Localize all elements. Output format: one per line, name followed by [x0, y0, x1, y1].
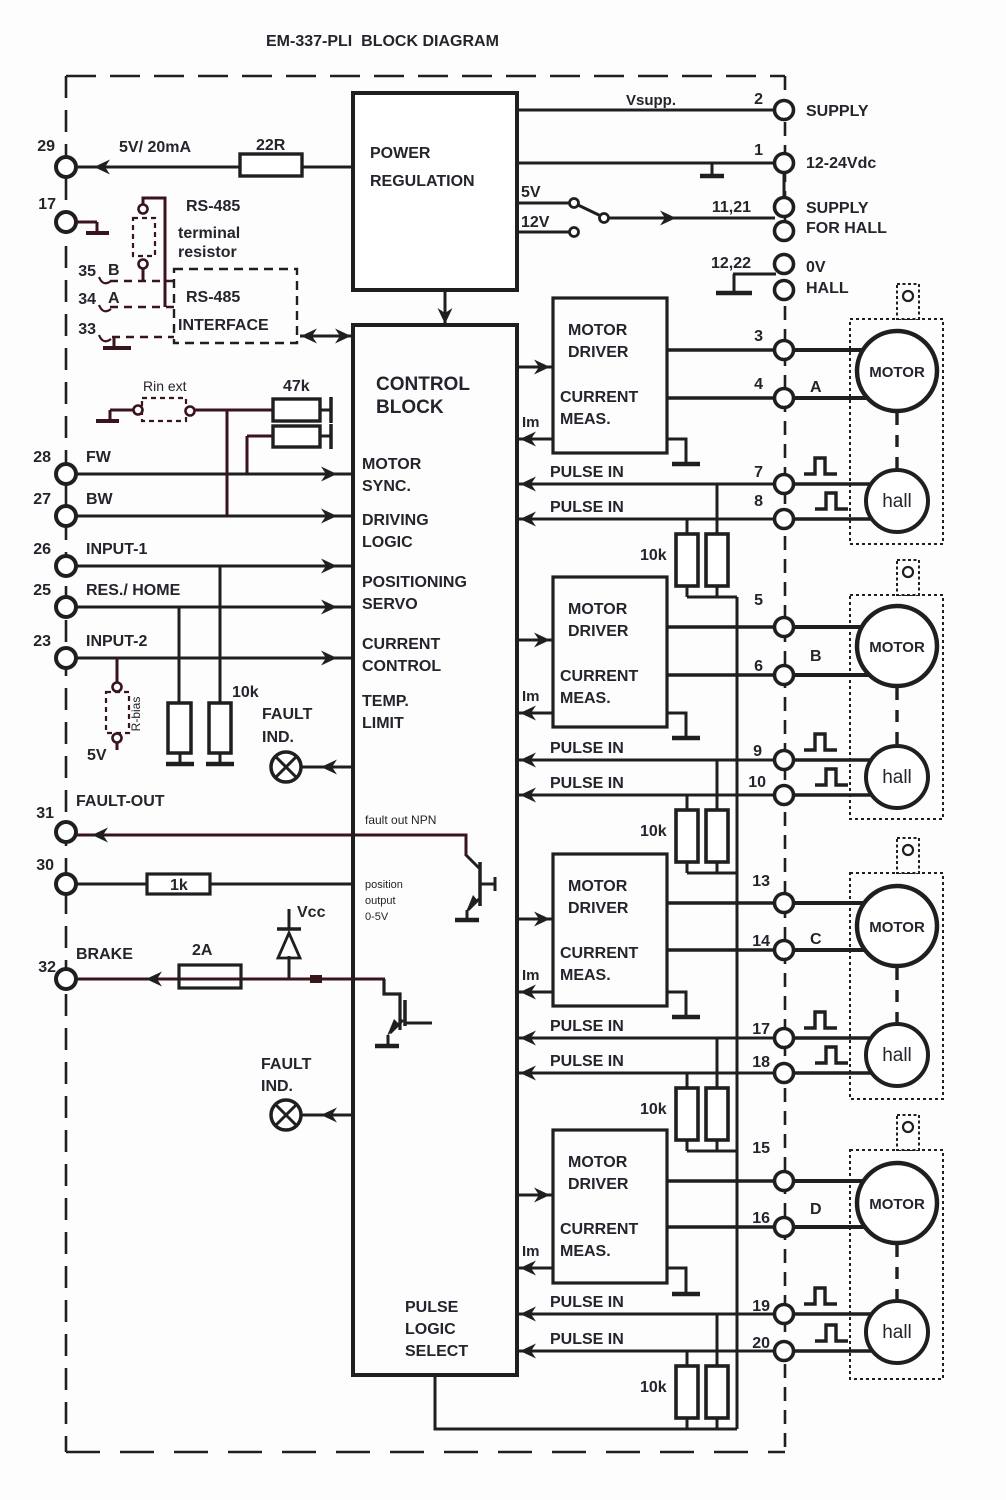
svg-text:31: 31 — [36, 805, 54, 822]
svg-text:MEAS.: MEAS. — [560, 411, 611, 428]
svg-text:hall: hall — [882, 767, 912, 788]
connector box motor A — [897, 284, 919, 319]
svg-text:fault out NPN: fault out NPN — [365, 813, 436, 827]
svg-text:33: 33 — [78, 321, 96, 338]
svg-text:LIMIT: LIMIT — [362, 715, 404, 732]
wire to supply-for-hall terminals — [608, 217, 775, 220]
svg-text:23: 23 — [33, 633, 51, 650]
wire hall B lower — [793, 793, 885, 797]
svg-text:DRIVER: DRIVER — [568, 344, 629, 361]
wire phase out 2 B — [667, 673, 775, 677]
svg-text:10k: 10k — [640, 823, 667, 840]
wire B line — [110, 280, 174, 282]
wire 12-24Vdc to terminal 1 — [517, 162, 775, 165]
wire phase out 2 A — [667, 396, 775, 400]
terminal column — [775, 101, 794, 120]
wire terminal to motor B phase 1 — [793, 625, 880, 629]
svg-text:PULSE IN: PULSE IN — [550, 740, 624, 757]
svg-text:RES./ HOME: RES./ HOME — [86, 582, 181, 599]
svg-text:MOTOR: MOTOR — [568, 322, 628, 339]
wire PULSE IN A lower — [517, 518, 775, 521]
svg-text:MEAS.: MEAS. — [560, 690, 611, 707]
pulse symbol D upper — [804, 1288, 837, 1304]
wire PULSE IN B upper — [517, 759, 775, 762]
wire terminal to motor D phase 1 — [793, 1179, 880, 1183]
wire hall A lower — [793, 517, 885, 521]
connector box motor D — [897, 1115, 919, 1150]
svg-text:7: 7 — [754, 464, 763, 481]
svg-text:B: B — [810, 648, 822, 665]
svg-text:BLOCK: BLOCK — [376, 397, 444, 418]
block POWER REGULATION — [353, 93, 517, 290]
svg-text:47k: 47k — [283, 378, 310, 395]
wire PULSE IN A upper — [517, 483, 775, 486]
wire power regulation to control block — [444, 290, 447, 324]
svg-text:FAULT-OUT: FAULT-OUT — [76, 793, 165, 810]
svg-text:CONTROL: CONTROL — [362, 658, 441, 675]
svg-text:CONTROL: CONTROL — [376, 374, 470, 395]
svg-text:hall: hall — [882, 1322, 912, 1343]
wire RS-485 to control block double arrow — [300, 335, 352, 338]
connector box motor B — [897, 560, 919, 595]
wire 10k common vertical — [736, 597, 739, 1429]
wire hall D lower — [793, 1349, 885, 1353]
motor unit box A — [850, 319, 943, 544]
wire 10k join A — [687, 596, 737, 599]
ground driver B — [667, 713, 686, 736]
wire terminal to motor A phase 1 — [793, 348, 880, 352]
svg-text:3: 3 — [754, 328, 763, 345]
svg-text:A: A — [810, 379, 822, 396]
wire hall C upper — [793, 1036, 885, 1040]
resistor 22R — [78, 166, 353, 169]
svg-text:PULSE: PULSE — [405, 1299, 459, 1316]
svg-text:Im: Im — [522, 414, 540, 431]
svg-text:2: 2 — [754, 91, 763, 108]
svg-text:10k: 10k — [640, 1379, 667, 1396]
svg-text:CURRENT: CURRENT — [560, 1221, 638, 1238]
wire phase out 1 C — [667, 901, 775, 905]
ground driver C — [667, 992, 686, 1015]
wire phase out 1 A — [667, 348, 775, 352]
svg-text:CURRENT: CURRENT — [560, 668, 638, 685]
wire motor to hall A — [895, 413, 898, 468]
jumper Rin ext — [134, 406, 143, 415]
RS-485 terminal resistor jumper — [139, 205, 148, 214]
wire fault ind lower — [302, 1114, 353, 1117]
svg-text:18: 18 — [752, 1054, 770, 1071]
wire hall C lower — [793, 1071, 885, 1075]
svg-text:9: 9 — [753, 743, 762, 760]
ground at terminal 17 — [77, 221, 97, 224]
svg-text:B: B — [108, 262, 120, 279]
wire Im D — [517, 1267, 553, 1270]
pulse symbol D lower — [815, 1325, 848, 1341]
svg-text:FAULT: FAULT — [262, 706, 313, 723]
wire control to driver A — [517, 366, 552, 369]
svg-text:POWER: POWER — [370, 145, 431, 162]
svg-text:5V: 5V — [521, 184, 541, 201]
svg-text:SUPPLY: SUPPLY — [806, 200, 869, 217]
svg-text:REGULATION: REGULATION — [370, 173, 475, 190]
svg-text:INPUT-2: INPUT-2 — [86, 633, 147, 650]
block MOTOR DRIVER C — [553, 854, 667, 1006]
svg-text:17: 17 — [38, 196, 56, 213]
svg-text:13: 13 — [752, 873, 770, 890]
svg-text:1k: 1k — [170, 877, 188, 894]
wire Vsupp to terminal 2 — [517, 109, 775, 112]
svg-text:PULSE IN: PULSE IN — [550, 499, 624, 516]
svg-text:28: 28 — [33, 449, 51, 466]
svg-text:19: 19 — [752, 1298, 770, 1315]
svg-text:INPUT-1: INPUT-1 — [86, 541, 147, 558]
motor A — [857, 331, 937, 411]
ground driver D — [667, 1268, 686, 1292]
svg-text:PULSE IN: PULSE IN — [550, 775, 624, 792]
wire RES./HOME to 10k — [178, 607, 181, 703]
svg-text:PULSE IN: PULSE IN — [550, 1053, 624, 1070]
wire Im A — [517, 438, 553, 441]
wire phase out 1 B — [667, 625, 775, 629]
svg-text:LOGIC: LOGIC — [405, 1321, 456, 1338]
pulse symbol C lower — [815, 1047, 848, 1063]
wire Im C — [517, 991, 553, 994]
svg-text:14: 14 — [752, 933, 770, 950]
ground Q2 — [375, 1044, 399, 1049]
ground driver A — [667, 439, 686, 462]
svg-text:BW: BW — [86, 491, 114, 508]
svg-text:MOTOR: MOTOR — [568, 1154, 628, 1171]
wire motor to hall D — [895, 1245, 898, 1299]
svg-text:IND.: IND. — [261, 1078, 293, 1095]
block MOTOR DRIVER B — [553, 577, 667, 727]
svg-text:LOGIC: LOGIC — [362, 534, 413, 551]
svg-text:Im: Im — [522, 967, 540, 984]
svg-text:27: 27 — [33, 491, 51, 508]
svg-text:CURRENT: CURRENT — [362, 636, 440, 653]
ground Q1 — [455, 918, 479, 923]
svg-text:8: 8 — [754, 493, 763, 510]
wire 10k join B — [687, 872, 737, 875]
svg-text:0-5V: 0-5V — [365, 911, 389, 923]
resistor 1k — [77, 883, 353, 886]
svg-text:10k: 10k — [232, 684, 259, 701]
svg-text:CURRENT: CURRENT — [560, 389, 638, 406]
svg-text:2A: 2A — [192, 942, 213, 959]
svg-text:5V/ 20mA: 5V/ 20mA — [119, 139, 191, 156]
outer dashed module border — [66, 75, 785, 78]
wire fault ind upper — [302, 766, 353, 769]
wire terminal to motor C phase 2 — [793, 948, 885, 952]
wire motor to hall C — [895, 968, 898, 1022]
hall sensor C — [866, 1024, 928, 1086]
svg-text:RS-485: RS-485 — [186, 198, 240, 215]
pulse symbol B lower — [815, 769, 848, 785]
motor unit box C — [850, 873, 943, 1099]
block RS-485 INTERFACE — [174, 269, 297, 343]
node brake diode junction — [310, 975, 322, 983]
svg-text:MOTOR: MOTOR — [568, 878, 628, 895]
wire phase out 2 C — [667, 948, 775, 952]
svg-text:12V: 12V — [521, 214, 550, 231]
svg-text:10k: 10k — [640, 1101, 667, 1118]
motor unit box B — [850, 595, 943, 819]
svg-text:DRIVER: DRIVER — [568, 623, 629, 640]
svg-text:4: 4 — [754, 376, 763, 393]
svg-text:35: 35 — [78, 263, 96, 280]
svg-text:PULSE IN: PULSE IN — [550, 1331, 624, 1348]
svg-text:R-bias: R-bias — [129, 697, 143, 732]
svg-text:29: 29 — [37, 138, 55, 155]
wire control to driver C — [517, 918, 552, 921]
svg-text:SUPPLY: SUPPLY — [806, 103, 869, 120]
wire Rin ext to 47k — [195, 409, 273, 412]
pulse symbol A upper — [804, 458, 837, 474]
pulse symbol C upper — [804, 1012, 837, 1028]
wire phase out 2 D — [667, 1225, 775, 1229]
svg-text:15: 15 — [752, 1140, 770, 1157]
svg-text:FAULT: FAULT — [261, 1056, 312, 1073]
motor unit box D — [850, 1150, 943, 1379]
ground on supply wire — [711, 163, 714, 175]
wire brake to transistor — [353, 978, 385, 981]
wire hall A upper — [793, 482, 885, 486]
transistor Q1 fault out NPN — [466, 855, 479, 868]
motor D — [857, 1163, 937, 1243]
svg-text:CURRENT: CURRENT — [560, 945, 638, 962]
svg-text:10k: 10k — [640, 547, 667, 564]
wire 5V output — [517, 202, 570, 205]
motor C — [857, 886, 937, 966]
wire control to driver B — [517, 639, 552, 642]
svg-text:5V: 5V — [87, 747, 107, 764]
svg-text:17: 17 — [752, 1021, 770, 1038]
hall sensor B — [866, 746, 928, 808]
svg-text:20: 20 — [752, 1335, 770, 1352]
svg-text:PULSE IN: PULSE IN — [550, 1294, 624, 1311]
wire terminal to motor D phase 2 — [793, 1225, 885, 1229]
svg-text:HALL: HALL — [806, 280, 849, 297]
svg-text:32: 32 — [38, 959, 56, 976]
svg-text:MOTOR: MOTOR — [869, 364, 925, 381]
svg-text:TEMP.: TEMP. — [362, 693, 409, 710]
svg-text:SYNC.: SYNC. — [362, 478, 411, 495]
wire terminal to motor A phase 2 — [793, 396, 885, 400]
wire INPUT-1 to 10k — [219, 566, 222, 703]
svg-text:Rin ext: Rin ext — [143, 378, 187, 394]
block MOTOR DRIVER D — [553, 1130, 667, 1283]
wire PULSE IN C lower — [517, 1072, 775, 1075]
svg-text:6: 6 — [754, 658, 763, 675]
svg-text:0V: 0V — [806, 259, 826, 276]
svg-text:hall: hall — [882, 491, 912, 512]
svg-text:Vsupp.: Vsupp. — [626, 92, 676, 109]
svg-text:EM-337-PLI BLOCK DIAGRAM: EM-337-PLI BLOCK DIAGRAM — [266, 33, 499, 50]
resistor 47k lower — [273, 426, 320, 447]
svg-text:POSITIONING: POSITIONING — [362, 574, 467, 591]
R-bias jumper — [113, 683, 122, 692]
pulse symbol B upper — [804, 734, 837, 750]
transistor Q2 brake driver — [403, 1000, 407, 1026]
svg-text:12,22: 12,22 — [711, 255, 751, 272]
svg-text:DRIVING: DRIVING — [362, 512, 429, 529]
block MOTOR DRIVER A — [553, 298, 667, 453]
wire control to driver D — [517, 1194, 552, 1197]
svg-text:C: C — [810, 931, 822, 948]
wire motor to hall B — [895, 688, 898, 744]
ground at pin 33 — [113, 337, 116, 346]
svg-text:22R: 22R — [256, 137, 286, 154]
svg-text:A: A — [108, 290, 120, 307]
wire PULSE IN B lower — [517, 794, 775, 797]
wire pulse select bottom — [435, 1375, 737, 1429]
ground 0V hall — [733, 274, 736, 291]
svg-text:FW: FW — [86, 449, 112, 466]
wire PULSE IN D lower — [517, 1350, 775, 1353]
wire Im B — [517, 712, 553, 715]
svg-text:PULSE IN: PULSE IN — [550, 464, 624, 481]
svg-text:resistor: resistor — [178, 244, 237, 261]
svg-text:position: position — [365, 879, 403, 891]
wire terminal 1 to terminal 11 — [783, 172, 786, 198]
svg-text:10: 10 — [748, 774, 766, 791]
svg-text:Vcc: Vcc — [297, 904, 326, 921]
svg-text:SELECT: SELECT — [405, 1343, 468, 1360]
ground at Rin ext — [110, 409, 134, 412]
svg-text:FOR HALL: FOR HALL — [806, 220, 887, 237]
wire PULSE IN D upper — [517, 1313, 775, 1316]
svg-text:DRIVER: DRIVER — [568, 1176, 629, 1193]
wire 12V output — [517, 231, 570, 234]
svg-text:MEAS.: MEAS. — [560, 1243, 611, 1260]
svg-text:hall: hall — [882, 1045, 912, 1066]
wire 10k join C — [687, 1150, 737, 1153]
svg-text:Im: Im — [522, 1243, 540, 1260]
wire 0V hall link — [733, 273, 776, 276]
motor B — [857, 606, 937, 686]
svg-text:MEAS.: MEAS. — [560, 967, 611, 984]
svg-text:RS-485: RS-485 — [186, 289, 240, 306]
svg-text:MOTOR: MOTOR — [869, 1196, 925, 1213]
wire hall B upper — [793, 758, 885, 762]
svg-text:MOTOR: MOTOR — [362, 456, 422, 473]
svg-text:16: 16 — [752, 1210, 770, 1227]
svg-text:DRIVER: DRIVER — [568, 900, 629, 917]
wire fault-out — [77, 834, 353, 837]
wire phase out 1 D — [667, 1179, 775, 1183]
svg-text:Im: Im — [522, 688, 540, 705]
svg-text:5: 5 — [754, 592, 763, 609]
svg-text:output: output — [365, 895, 396, 907]
svg-text:30: 30 — [36, 857, 54, 874]
svg-text:BRAKE: BRAKE — [76, 946, 133, 963]
svg-text:terminal: terminal — [178, 225, 240, 242]
svg-text:34: 34 — [78, 291, 96, 308]
svg-text:12-24Vdc: 12-24Vdc — [806, 155, 876, 172]
switch 5V/12V select — [570, 199, 579, 208]
block CONTROL BLOCK — [353, 325, 517, 1375]
wire 33 line — [112, 336, 174, 338]
svg-text:1: 1 — [754, 142, 763, 159]
hall sensor D — [866, 1301, 928, 1363]
wire terminal to motor C phase 1 — [793, 901, 880, 905]
svg-text:25: 25 — [33, 582, 51, 599]
svg-text:IND.: IND. — [262, 729, 294, 746]
connector box motor C — [897, 838, 919, 873]
wire INPUT-2 to R-bias — [116, 658, 119, 683]
svg-text:MOTOR: MOTOR — [869, 919, 925, 936]
wire PULSE IN C upper — [517, 1037, 775, 1040]
svg-text:PULSE IN: PULSE IN — [550, 1018, 624, 1035]
svg-text:D: D — [810, 1201, 822, 1218]
wire A line — [110, 306, 174, 308]
svg-text:11,21: 11,21 — [712, 199, 751, 216]
svg-text:SERVO: SERVO — [362, 596, 418, 613]
pulse symbol A lower — [815, 493, 848, 509]
svg-text:26: 26 — [33, 541, 51, 558]
svg-text:MOTOR: MOTOR — [568, 601, 628, 618]
svg-text:INTERFACE: INTERFACE — [178, 317, 269, 334]
wire terminal to motor B phase 2 — [793, 673, 885, 677]
wire drop to BW — [226, 410, 229, 516]
hall sensor A — [866, 470, 928, 532]
svg-text:MOTOR: MOTOR — [869, 639, 925, 656]
wire drop 47k to FW — [246, 436, 249, 474]
wire fault-out to transistor — [353, 835, 466, 856]
wire hall D upper — [793, 1312, 885, 1316]
